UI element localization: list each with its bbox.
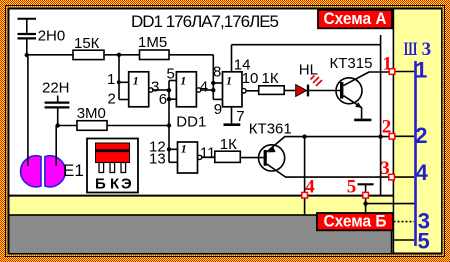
svg-text:5: 5 <box>167 66 175 83</box>
transistor KT315 base bar <box>340 82 343 99</box>
resistor R1 15K body <box>73 50 104 59</box>
ground bar pin7 <box>224 123 241 126</box>
svg-text:1: 1 <box>383 54 393 75</box>
red connection square 1 <box>389 69 395 75</box>
wire gate3 out to 1K <box>246 90 259 92</box>
svg-text:Схема А: Схема А <box>324 10 387 28</box>
gate DD1.1 output bubble <box>149 88 153 92</box>
terminal T stem to square5 <box>365 184 367 192</box>
wire pin14 riser <box>231 45 233 72</box>
gate DD1.3 output bubble <box>242 89 246 93</box>
svg-text:5: 5 <box>347 177 357 198</box>
capacitor C1 2H0 bottom stem <box>26 40 28 56</box>
node dot 15K/1M5 node <box>117 53 121 57</box>
svg-text:3: 3 <box>380 158 390 179</box>
tick square1 to connector <box>395 71 414 73</box>
tick square3 to connector <box>394 176 414 178</box>
node dot pin1 junction <box>117 80 121 84</box>
wire gate2 output to x213 <box>201 89 214 91</box>
node dot gate2 output <box>211 88 215 92</box>
wire 15K to 1M5 <box>104 54 140 56</box>
node dot emitter/+V line <box>378 134 382 138</box>
transistor KT361 base bar <box>264 150 267 166</box>
microphone E1 right half <box>45 156 65 187</box>
wire pin2 stub <box>119 99 129 101</box>
transistor KT361 emitter arrow <box>268 147 276 153</box>
red connection square 4 <box>302 192 308 198</box>
tick red box to connector pin3 dotted <box>394 221 415 223</box>
red connection square 2 <box>389 134 395 140</box>
wire pin13 stub <box>169 161 178 163</box>
wire 3M0 to vertical x169.5 <box>107 125 169 127</box>
wire square5 down <box>365 198 367 213</box>
svg-text:DD1: DD1 <box>176 114 206 131</box>
svg-text:15К: 15К <box>74 35 100 52</box>
node dot 22H junction <box>56 123 60 127</box>
svg-text:6: 6 <box>159 91 167 108</box>
LED HL cathode bar <box>307 85 309 97</box>
svg-text:2: 2 <box>415 123 427 148</box>
wire pin9 stub <box>213 98 222 100</box>
capacitor C2 22H bottom stem <box>57 108 59 125</box>
LED HL rays <box>311 76 323 87</box>
svg-text:7: 7 <box>236 108 244 125</box>
svg-text:2: 2 <box>382 117 392 138</box>
wire node5 to pin3 of connector <box>366 203 415 205</box>
terminal T bar near 5 <box>358 183 374 185</box>
logic gate DD1.3 box <box>223 72 243 107</box>
svg-text:4: 4 <box>416 160 429 185</box>
wire E1 right lead <box>55 126 57 167</box>
wire 22H node to 3M0 <box>58 125 77 127</box>
svg-text:1: 1 <box>181 141 187 155</box>
yellow bottom band <box>10 197 393 253</box>
node dot pin8 tap <box>211 81 215 85</box>
grey box right border <box>391 214 393 253</box>
svg-text:5: 5 <box>418 229 430 254</box>
capacitor C2 22H plates <box>45 101 70 103</box>
svg-text:4: 4 <box>200 79 208 96</box>
node dot pin12 <box>167 147 171 151</box>
component box BKE outer <box>87 139 138 193</box>
capacitor C1 2H0 top stem <box>26 20 28 34</box>
red connection square 5 <box>363 192 369 198</box>
red label box Schema B <box>317 213 393 230</box>
tick grey box to connector pin5 <box>393 239 415 241</box>
yellow panel left border <box>393 10 395 253</box>
svg-text:КТ315: КТ315 <box>330 55 373 72</box>
KT315 ground bar <box>354 119 371 122</box>
LED HL triangle <box>296 85 307 97</box>
node dot emitter/square4 vertical <box>302 134 306 138</box>
svg-text:1: 1 <box>133 74 139 88</box>
node dot 3M0 tap <box>167 123 171 127</box>
red pin digits <box>305 54 392 198</box>
svg-text:10: 10 <box>242 70 259 87</box>
wire +V vertical border x380.6 <box>380 35 382 196</box>
wire node A to resistor 15K <box>27 54 73 56</box>
transistor KT315 emitter arrow <box>355 102 362 108</box>
svg-text:1: 1 <box>107 71 115 88</box>
BKE black stripe <box>96 149 130 152</box>
svg-text:2Н0: 2Н0 <box>38 27 66 44</box>
svg-text:HL: HL <box>299 62 318 79</box>
wire pin5 stub <box>169 80 176 82</box>
svg-text:4: 4 <box>305 177 315 198</box>
capacitor C2 22H top stub <box>57 96 59 102</box>
svg-text:9: 9 <box>214 101 222 118</box>
logic gate DD1.1 box <box>129 72 149 107</box>
svg-text:Схема Б: Схема Б <box>324 213 387 231</box>
node dot 2H0 junction <box>25 53 29 57</box>
svg-text:2: 2 <box>108 90 116 107</box>
ground DD1 pin7 stem <box>231 107 233 124</box>
svg-text:8: 8 <box>213 63 221 80</box>
node dot square5 branch <box>363 201 367 205</box>
microphone E1 left half <box>21 156 41 187</box>
node dot pin6 <box>167 97 171 101</box>
wire gate1 output to vertical x169 <box>153 89 169 91</box>
red label box Schema A <box>318 10 392 28</box>
node dot gate1 out / x169 <box>167 88 171 92</box>
wire square4 to grey box <box>304 198 306 215</box>
wire LED to KT315 base <box>309 90 340 92</box>
yellow right panel <box>394 10 441 253</box>
resistor R4 3M0 body <box>77 121 107 131</box>
BKE red body <box>96 143 130 163</box>
KT315 collector wire <box>343 72 389 86</box>
wire pin12 stub <box>169 148 178 150</box>
svg-text:КТ361: КТ361 <box>249 120 292 137</box>
tick square2 to connector <box>395 135 414 137</box>
circuit bottom boundary line <box>10 195 394 197</box>
wire 1K to LED <box>284 90 296 92</box>
wire feedback vertical x213 <box>212 55 214 100</box>
svg-text:1К: 1К <box>220 136 237 153</box>
KT361 emitter wire to +V <box>267 137 389 152</box>
wire square4 vertical <box>304 137 306 193</box>
svg-text:Е1: Е1 <box>63 161 84 180</box>
KT315 emitter wire <box>343 96 361 119</box>
connector vertical blue line <box>414 61 417 246</box>
svg-text:1: 1 <box>415 58 427 83</box>
wire E1 left lead <box>27 55 29 166</box>
gate DD1.4 output bubble <box>198 155 202 159</box>
connector blue pin numbers <box>415 58 430 254</box>
wire gate4 out to 1K <box>202 156 215 158</box>
svg-text:1: 1 <box>180 74 186 88</box>
svg-text:1: 1 <box>226 74 232 88</box>
logic gate DD1.2 box <box>176 72 196 107</box>
BKE leg 3 <box>121 163 126 173</box>
wire pin8 stub <box>213 82 222 84</box>
KT361 collector wire to square3 <box>267 164 389 177</box>
BKE leg 1 <box>99 163 104 173</box>
grey box <box>10 215 392 253</box>
svg-text:К: К <box>110 176 120 193</box>
capacitor C1 2H0 top bar terminal <box>18 18 37 20</box>
svg-text:1М5: 1М5 <box>138 34 167 51</box>
logic gate DD1.4 box <box>178 142 198 173</box>
svg-text:1К: 1К <box>262 70 279 87</box>
svg-text:Б: Б <box>95 176 106 193</box>
wire node B vertical x119 <box>118 55 120 100</box>
svg-text:DD1 176ЛА7,176ЛЕ5: DD1 176ЛА7,176ЛЕ5 <box>131 12 279 31</box>
resistor R5 1K body <box>215 151 241 162</box>
resistor R2 1M5 body <box>140 50 170 60</box>
wire +V rail top <box>232 44 381 46</box>
grey box top border <box>10 214 392 216</box>
wire 1K to KT361 base <box>240 157 263 159</box>
red connection square 3 <box>389 174 395 180</box>
wire pin6 stub <box>169 98 176 100</box>
gate DD1.2 output bubble <box>196 88 200 92</box>
svg-text:Э: Э <box>121 176 132 193</box>
transistor Q1 KT315 circle <box>336 78 362 104</box>
svg-text:22Н: 22Н <box>42 80 70 97</box>
wire vertical x169.5 <box>168 81 170 163</box>
svg-text:13: 13 <box>149 151 166 168</box>
svg-text:3М0: 3М0 <box>77 105 106 122</box>
wire pin1 stub <box>119 81 129 83</box>
resistor R3 1K body <box>259 86 285 95</box>
svg-text:11: 11 <box>200 145 216 162</box>
BKE leg 2 <box>110 163 115 173</box>
capacitor C1 2H0 plates <box>18 33 37 35</box>
transistor Q2 KT361 circle <box>259 145 285 171</box>
wire 1M5 right to feedback vertical <box>169 54 213 56</box>
